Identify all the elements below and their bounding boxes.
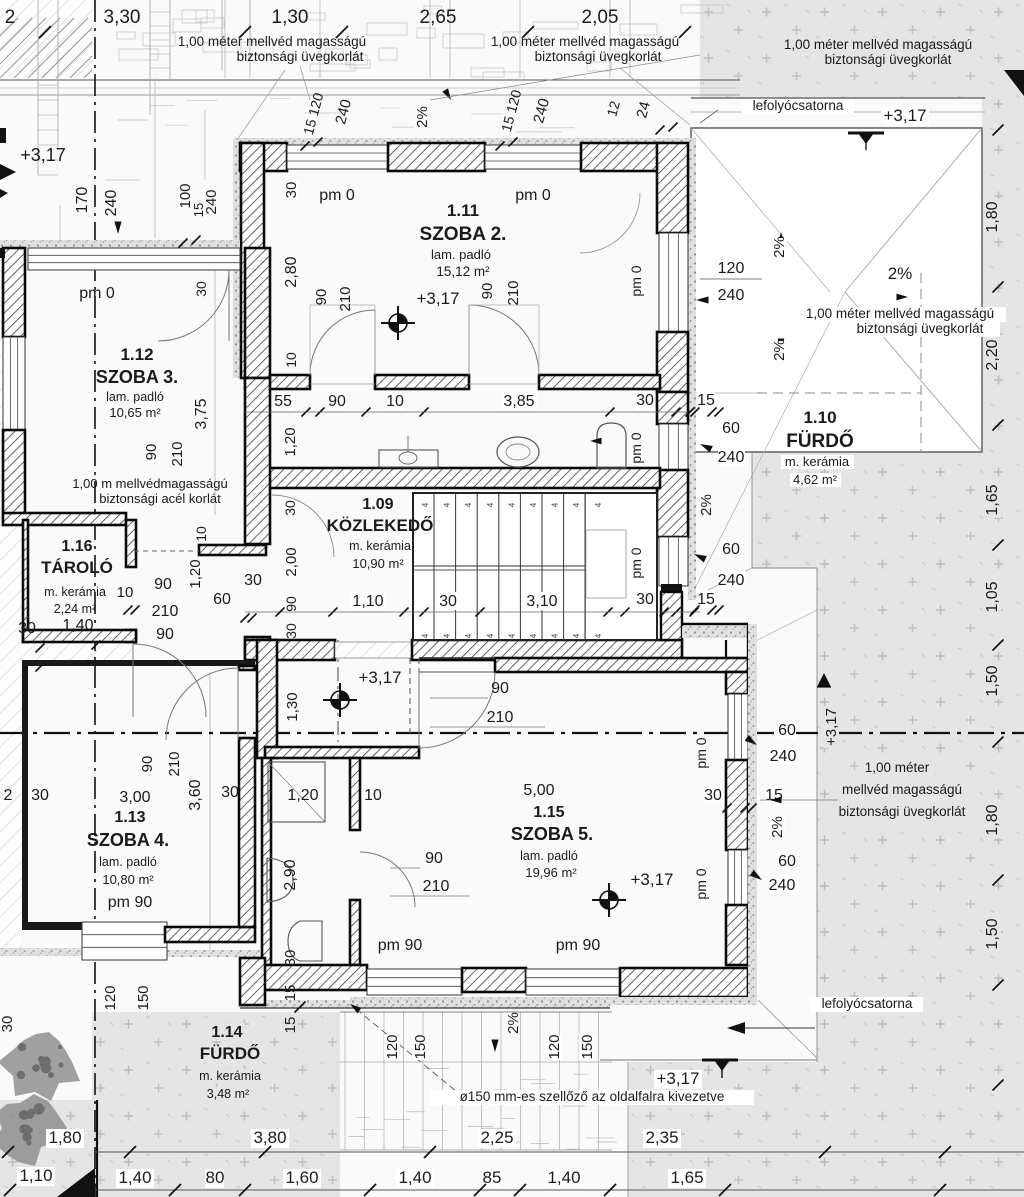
- svg-text:1,00 méter mellvéd magasságú: 1,00 méter mellvéd magasságú: [784, 37, 972, 52]
- svg-text:TÁROLÓ: TÁROLÓ: [41, 558, 113, 577]
- svg-text:4: 4: [507, 633, 516, 638]
- svg-text:4: 4: [507, 502, 516, 507]
- svg-text:150: 150: [579, 1034, 596, 1059]
- svg-text:pm 90: pm 90: [556, 937, 601, 954]
- svg-text:1,20: 1,20: [282, 427, 299, 456]
- svg-text:30: 30: [0, 1016, 16, 1033]
- svg-text:240: 240: [769, 877, 796, 894]
- svg-text:pm 0: pm 0: [628, 547, 644, 578]
- svg-text:1,00 méter mellvéd magasságú: 1,00 méter mellvéd magasságú: [178, 34, 366, 49]
- svg-text:pm 0: pm 0: [693, 868, 709, 899]
- svg-text:1,05: 1,05: [984, 581, 1001, 612]
- svg-text:90: 90: [425, 850, 443, 867]
- svg-text:biztonsági üvegkorlát: biztonsági üvegkorlát: [857, 321, 984, 336]
- svg-text:3,75: 3,75: [193, 398, 210, 429]
- svg-text:240: 240: [203, 189, 220, 214]
- svg-text:+3,17: +3,17: [656, 1069, 699, 1088]
- svg-text:90: 90: [328, 393, 346, 410]
- svg-text:120: 120: [384, 1034, 401, 1059]
- svg-text:60: 60: [722, 541, 740, 558]
- svg-text:1,80: 1,80: [984, 804, 1001, 835]
- svg-text:pm 0: pm 0: [628, 265, 644, 296]
- svg-text:15: 15: [697, 591, 715, 608]
- svg-text:60: 60: [722, 420, 740, 437]
- svg-text:240: 240: [718, 287, 745, 304]
- svg-text:biztonsági üvegkorlát: biztonsági üvegkorlát: [825, 52, 952, 67]
- svg-text:4: 4: [421, 502, 430, 507]
- svg-text:210: 210: [152, 603, 179, 620]
- svg-text:30: 30: [221, 784, 239, 801]
- svg-text:4: 4: [464, 633, 473, 638]
- svg-text:240: 240: [718, 572, 745, 589]
- svg-text:1,10: 1,10: [19, 1166, 52, 1185]
- svg-text:+3,17: +3,17: [630, 870, 673, 889]
- svg-text:2%: 2%: [505, 1012, 522, 1034]
- svg-text:2%: 2%: [769, 816, 786, 838]
- svg-text:10: 10: [193, 526, 209, 542]
- svg-text:SZOBA 3.: SZOBA 3.: [96, 367, 178, 387]
- svg-text:pm 90: pm 90: [378, 937, 423, 954]
- svg-text:1.12: 1.12: [120, 345, 153, 364]
- svg-text:ø150 mm-es szellőző az oldalfa: ø150 mm-es szellőző az oldalfalra kiveze…: [460, 1089, 725, 1104]
- svg-text:60: 60: [778, 722, 796, 739]
- svg-text:pm 0: pm 0: [79, 285, 115, 302]
- svg-text:210: 210: [505, 280, 522, 305]
- svg-text:1,80: 1,80: [984, 201, 1001, 232]
- svg-text:30: 30: [244, 572, 262, 589]
- svg-text:2,24 m²: 2,24 m²: [54, 602, 96, 616]
- svg-text:1.13: 1.13: [114, 809, 145, 826]
- svg-text:2,20: 2,20: [984, 339, 1001, 370]
- svg-text:30: 30: [31, 787, 49, 804]
- svg-text:4: 4: [594, 502, 603, 507]
- svg-text:1,00 méter mellvéd magasságú: 1,00 méter mellvéd magasságú: [491, 34, 679, 49]
- svg-text:2,65: 2,65: [420, 7, 457, 28]
- svg-text:170: 170: [74, 187, 91, 214]
- svg-text:SZOBA 2.: SZOBA 2.: [420, 224, 507, 245]
- svg-text:SZOBA 5.: SZOBA 5.: [511, 824, 593, 844]
- svg-text:15: 15: [282, 985, 299, 1002]
- svg-text:pm 90: pm 90: [108, 894, 153, 911]
- svg-text:3,00: 3,00: [119, 789, 150, 806]
- svg-text:m. kerámia: m. kerámia: [785, 454, 850, 469]
- svg-text:1,40: 1,40: [547, 1168, 580, 1187]
- svg-text:30: 30: [636, 392, 654, 409]
- svg-text:60: 60: [778, 853, 796, 870]
- svg-text:30: 30: [282, 500, 298, 516]
- svg-text:biztonsági üvegkorlát: biztonsági üvegkorlát: [535, 49, 662, 64]
- svg-text:10: 10: [117, 584, 134, 601]
- svg-text:240: 240: [103, 190, 120, 217]
- svg-text:biztonsági acél korlát: biztonsági acél korlát: [99, 491, 221, 506]
- svg-text:19,96 m²: 19,96 m²: [525, 865, 577, 880]
- svg-text:30: 30: [283, 182, 300, 199]
- svg-text:80: 80: [206, 1168, 225, 1187]
- svg-text:1.09: 1.09: [362, 496, 393, 513]
- svg-text:pm 0: pm 0: [319, 187, 355, 204]
- svg-text:FÜRDŐ: FÜRDŐ: [200, 1044, 260, 1063]
- svg-text:15,12 m²: 15,12 m²: [436, 264, 490, 279]
- svg-text:3,80: 3,80: [253, 1128, 286, 1147]
- svg-text:4: 4: [594, 633, 603, 638]
- svg-text:3,85: 3,85: [503, 393, 534, 410]
- svg-text:1,65: 1,65: [670, 1168, 703, 1187]
- svg-text:lefolyócsatorna: lefolyócsatorna: [822, 996, 913, 1011]
- svg-text:pm 0: pm 0: [515, 187, 551, 204]
- svg-text:55: 55: [274, 393, 292, 410]
- svg-text:3,30: 3,30: [104, 7, 141, 28]
- svg-text:lam. padló: lam. padló: [106, 390, 164, 404]
- svg-text:FÜRDŐ: FÜRDŐ: [786, 430, 854, 452]
- svg-text:10,65 m²: 10,65 m²: [109, 405, 161, 420]
- svg-text:2%: 2%: [888, 264, 913, 283]
- svg-text:SZOBA 4.: SZOBA 4.: [87, 830, 169, 850]
- svg-text:1,30: 1,30: [284, 692, 301, 721]
- svg-text:1.15: 1.15: [533, 804, 564, 821]
- svg-text:150: 150: [135, 985, 152, 1010]
- svg-text:210: 210: [487, 709, 514, 726]
- svg-text:4: 4: [443, 633, 452, 638]
- svg-text:120: 120: [102, 985, 119, 1010]
- svg-text:pm 0: pm 0: [693, 737, 709, 768]
- svg-text:10: 10: [364, 787, 382, 804]
- svg-text:2,80: 2,80: [283, 256, 300, 287]
- svg-text:3,48 m²: 3,48 m²: [207, 1087, 249, 1101]
- svg-text:30: 30: [282, 950, 299, 967]
- svg-text:240: 240: [718, 449, 745, 466]
- svg-text:4: 4: [486, 502, 495, 507]
- svg-text:4: 4: [486, 633, 495, 638]
- svg-text:1,20: 1,20: [287, 787, 318, 804]
- svg-text:90: 90: [313, 289, 330, 306]
- svg-text:1,40: 1,40: [118, 1168, 151, 1187]
- svg-text:2%: 2%: [771, 339, 788, 361]
- svg-text:+3,17: +3,17: [823, 708, 840, 746]
- svg-text:4,62 m²: 4,62 m²: [793, 472, 838, 487]
- svg-text:30: 30: [704, 787, 722, 804]
- svg-text:4: 4: [443, 502, 452, 507]
- svg-text:90: 90: [479, 283, 496, 300]
- svg-text:lam. padló: lam. padló: [431, 247, 491, 262]
- svg-text:30: 30: [283, 623, 299, 639]
- svg-text:1,50: 1,50: [984, 918, 1001, 949]
- svg-text:30: 30: [193, 281, 209, 297]
- svg-text:240: 240: [770, 748, 797, 765]
- svg-text:2%: 2%: [414, 106, 431, 128]
- svg-text:90: 90: [283, 596, 299, 612]
- svg-text:+3,17: +3,17: [883, 106, 926, 125]
- svg-text:+3,17: +3,17: [358, 668, 401, 687]
- svg-text:3,10: 3,10: [526, 593, 557, 610]
- svg-text:1.11: 1.11: [447, 201, 479, 220]
- svg-text:60: 60: [213, 591, 231, 608]
- svg-text:4: 4: [551, 633, 560, 638]
- svg-text:1.10: 1.10: [803, 408, 836, 427]
- svg-text:1,40: 1,40: [398, 1168, 431, 1187]
- svg-text:lefolyócsatorna: lefolyócsatorna: [753, 98, 844, 113]
- svg-text:150: 150: [412, 1034, 429, 1059]
- svg-text:2,00: 2,00: [283, 547, 300, 576]
- svg-text:pm 0: pm 0: [628, 432, 644, 463]
- svg-text:5,00: 5,00: [523, 782, 554, 799]
- svg-text:1,00 méter mellvéd magasságú: 1,00 méter mellvéd magasságú: [806, 306, 994, 321]
- svg-text:biztonsági üvegkorlát: biztonsági üvegkorlát: [839, 804, 966, 819]
- svg-text:15: 15: [697, 392, 715, 409]
- svg-text:1,60: 1,60: [285, 1168, 318, 1187]
- svg-text:210: 210: [169, 441, 186, 466]
- svg-text:3,60: 3,60: [187, 779, 204, 810]
- svg-text:210: 210: [423, 878, 450, 895]
- svg-text:2%: 2%: [771, 236, 788, 258]
- svg-text:2,35: 2,35: [645, 1128, 678, 1147]
- svg-text:KÖZLEKEDŐ: KÖZLEKEDŐ: [327, 516, 434, 535]
- svg-text:1,50: 1,50: [984, 665, 1001, 696]
- svg-text:15: 15: [282, 1017, 299, 1034]
- svg-text:4: 4: [421, 633, 430, 638]
- svg-text:biztonsági üvegkorlát: biztonsági üvegkorlát: [237, 49, 364, 64]
- svg-text:+3,17: +3,17: [20, 145, 66, 165]
- svg-text:4: 4: [529, 633, 538, 638]
- svg-text:2%: 2%: [698, 494, 715, 516]
- svg-text:2,25: 2,25: [480, 1128, 513, 1147]
- svg-text:2: 2: [5, 7, 16, 28]
- svg-text:1.14: 1.14: [211, 1024, 242, 1041]
- svg-text:lam. padló: lam. padló: [520, 849, 578, 863]
- svg-text:4: 4: [529, 502, 538, 507]
- svg-text:m. kerámia: m. kerámia: [349, 539, 411, 553]
- svg-text:1,30: 1,30: [272, 7, 309, 28]
- svg-text:210: 210: [166, 751, 183, 776]
- svg-text:1,00 méter: 1,00 méter: [865, 760, 930, 775]
- svg-text:90: 90: [491, 680, 509, 697]
- svg-text:4: 4: [464, 502, 473, 507]
- svg-text:10,80 m²: 10,80 m²: [102, 872, 154, 887]
- svg-text:90: 90: [154, 576, 172, 593]
- svg-text:4: 4: [572, 502, 581, 507]
- svg-text:+3,17: +3,17: [416, 289, 459, 308]
- svg-text:210: 210: [337, 286, 354, 311]
- svg-text:1,00 m mellvédmagasságú: 1,00 m mellvédmagasságú: [72, 476, 227, 491]
- svg-text:4: 4: [551, 502, 560, 507]
- svg-text:10: 10: [283, 352, 299, 368]
- svg-text:mellvéd magasságú: mellvéd magasságú: [842, 782, 962, 797]
- svg-text:2,05: 2,05: [582, 7, 619, 28]
- svg-text:1,40: 1,40: [62, 617, 93, 634]
- svg-text:90: 90: [139, 756, 156, 773]
- svg-text:m. kerámia: m. kerámia: [44, 585, 106, 599]
- svg-text:1,10: 1,10: [352, 593, 383, 610]
- svg-text:90: 90: [156, 626, 174, 643]
- svg-text:10,90 m²: 10,90 m²: [352, 556, 404, 571]
- svg-text:30: 30: [439, 593, 457, 610]
- svg-text:2: 2: [4, 787, 13, 804]
- svg-text:1,65: 1,65: [984, 484, 1001, 515]
- svg-text:4: 4: [572, 633, 581, 638]
- svg-text:30: 30: [636, 591, 654, 608]
- svg-text:m. kerámia: m. kerámia: [199, 1069, 261, 1083]
- svg-text:2,90: 2,90: [282, 859, 299, 890]
- svg-text:1.16: 1.16: [61, 538, 92, 555]
- svg-text:1,20: 1,20: [187, 559, 204, 588]
- svg-text:lam. padló: lam. padló: [99, 855, 157, 869]
- svg-text:90: 90: [143, 444, 160, 461]
- svg-text:1,80: 1,80: [48, 1128, 81, 1147]
- svg-text:30: 30: [18, 620, 36, 637]
- svg-text:10: 10: [386, 393, 404, 410]
- svg-text:120: 120: [718, 260, 745, 277]
- svg-text:120: 120: [546, 1034, 563, 1059]
